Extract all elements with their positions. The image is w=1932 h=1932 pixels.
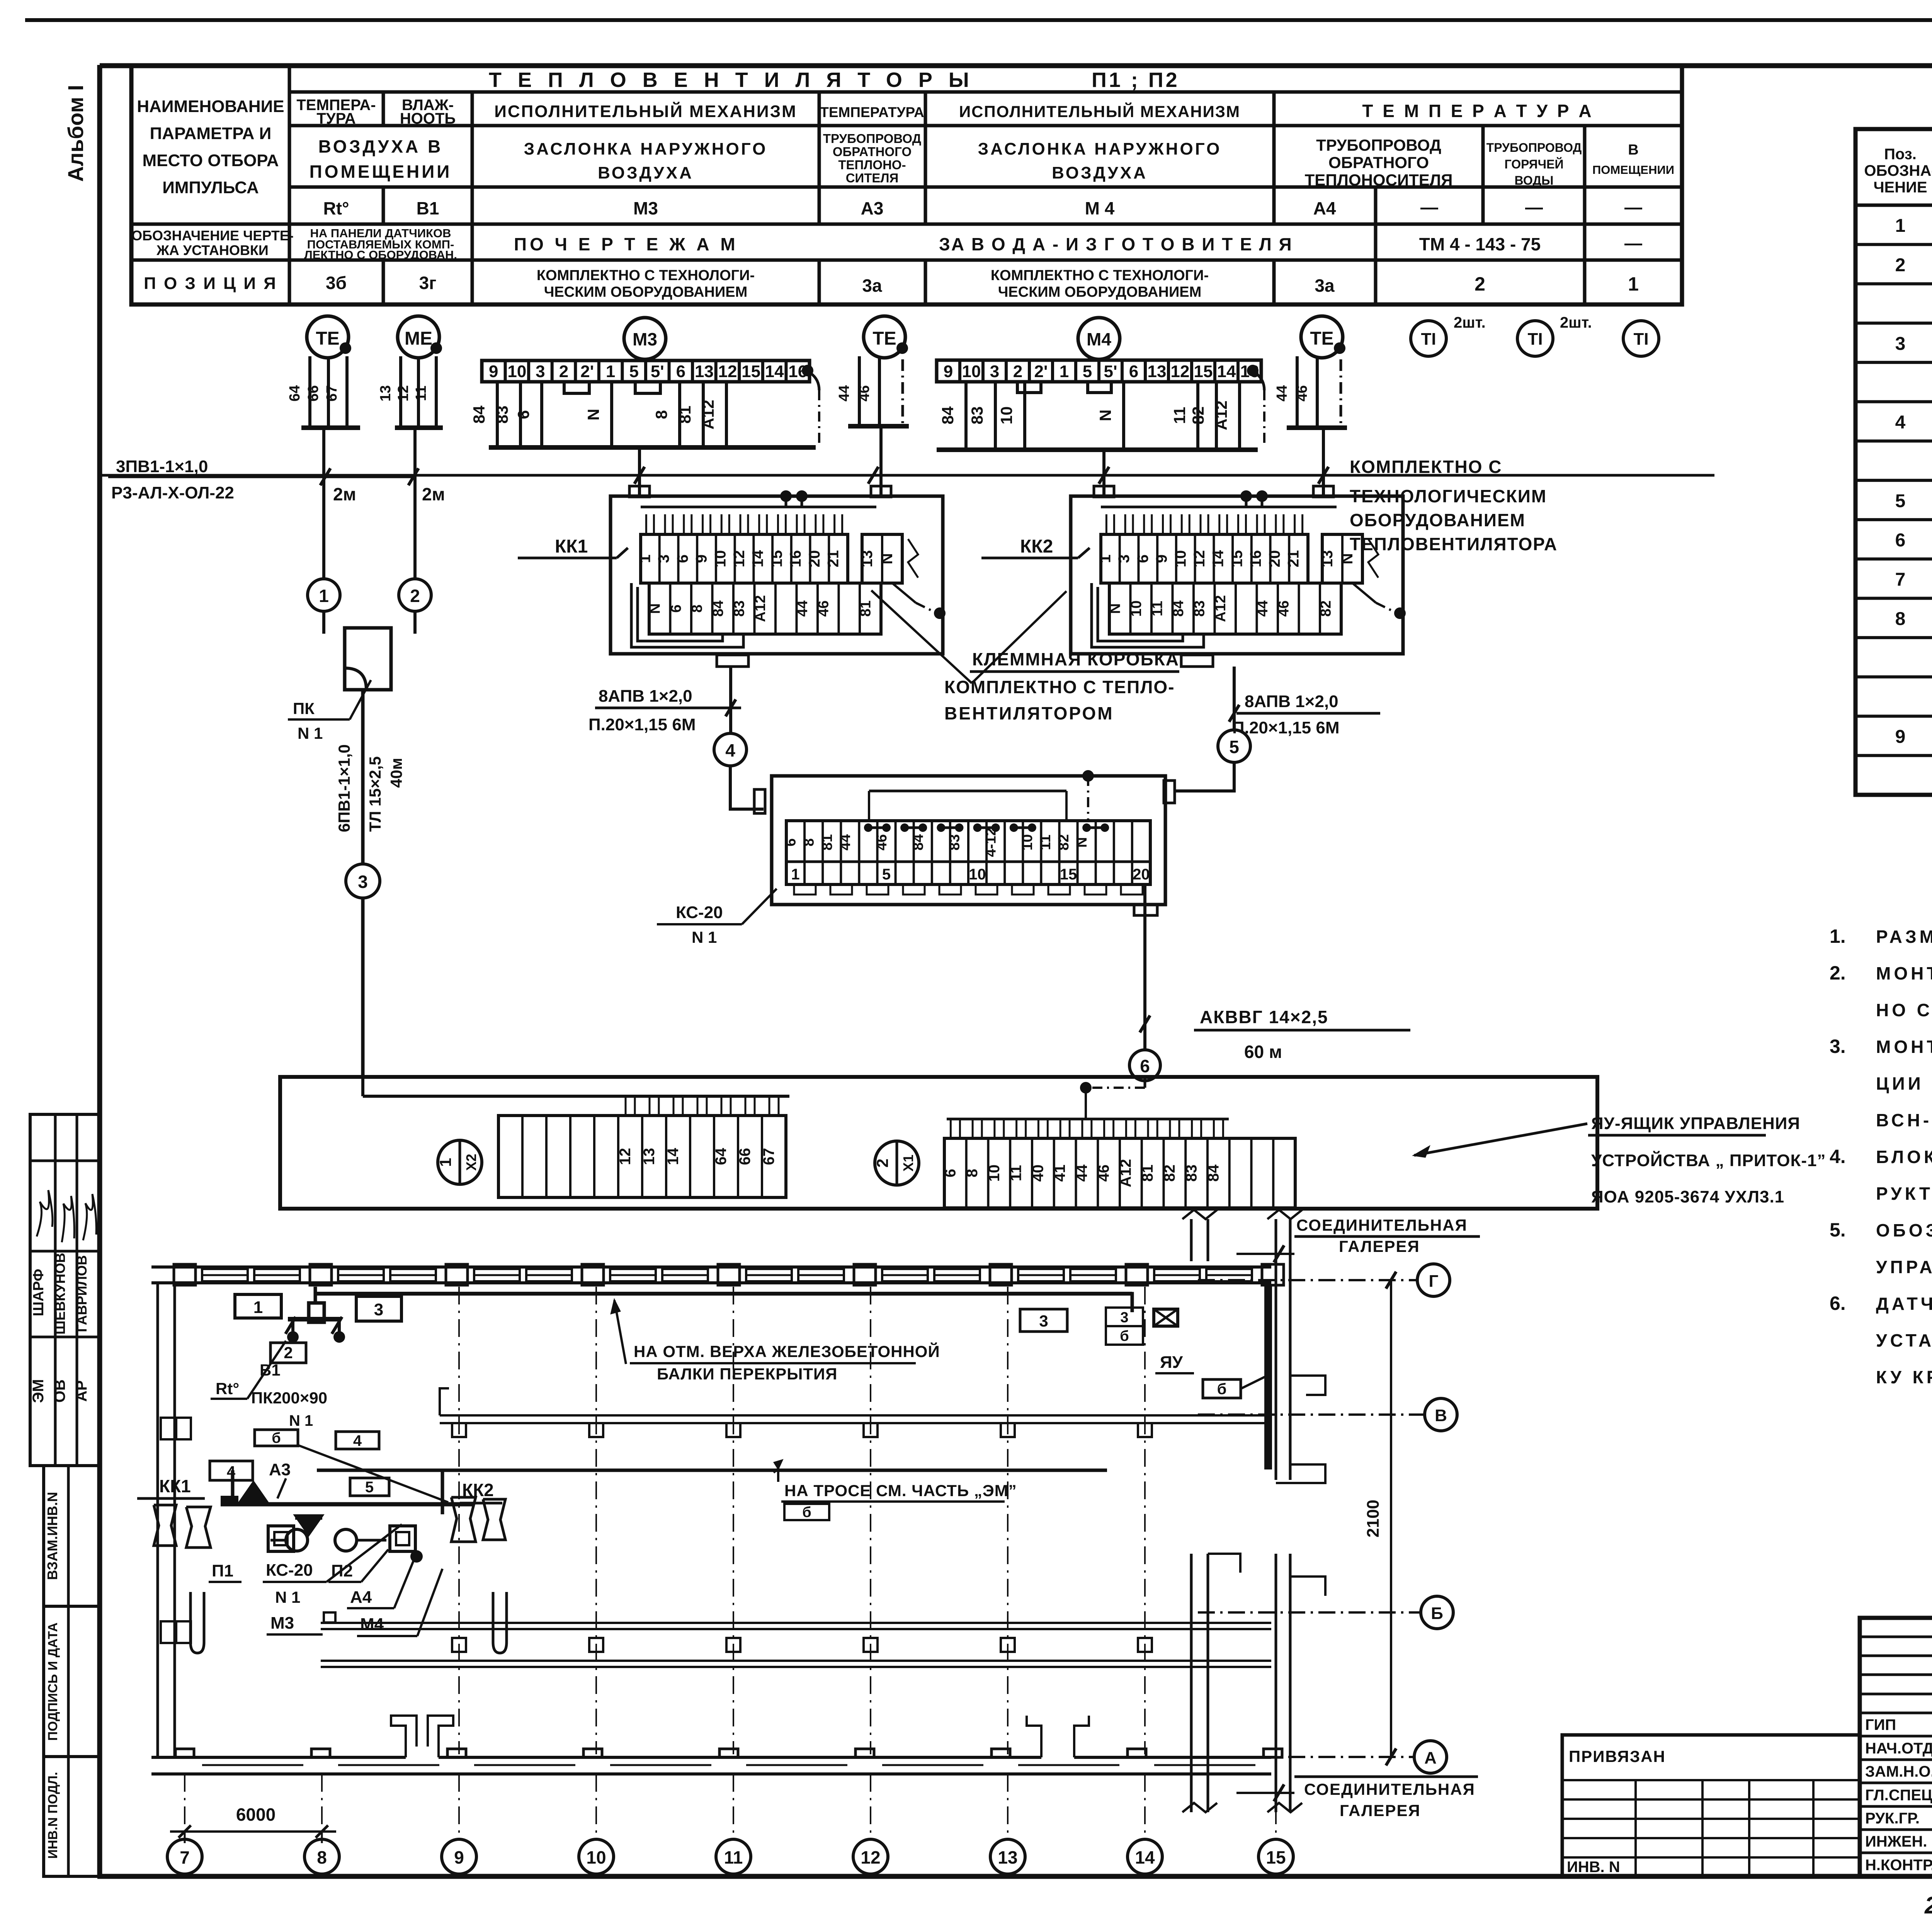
svg-text:44: 44 [837, 834, 854, 850]
svg-text:2': 2' [1034, 362, 1048, 381]
gallery upper walls [1190, 1219, 1193, 1261]
svg-text:5: 5 [882, 866, 891, 883]
svg-text:2: 2 [1475, 273, 1485, 295]
svg-text:ЯОА 9205-3674 УХЛ3.1: ЯОА 9205-3674 УХЛ3.1 [1591, 1187, 1784, 1206]
svg-text:М3: М3 [633, 329, 657, 349]
svg-text:ВСН-296-72 ММСС СССР.: ВСН-296-72 ММСС СССР. [1876, 1110, 1932, 1130]
svg-text:МЕСТО ОТБОРА: МЕСТО ОТБОРА [142, 151, 279, 170]
plan callout stack 3 б right [1106, 1308, 1143, 1326]
terminal strip KC-20 jumper dots [864, 823, 872, 832]
title block outline [1860, 1618, 1932, 1876]
plan down duct right [493, 1592, 507, 1653]
svg-text:б: б [272, 1430, 281, 1446]
svg-text:5: 5 [1895, 491, 1906, 511]
terminal strip M3 end dot [802, 365, 813, 376]
terminal box KK2 lower cells [1109, 583, 1341, 634]
svg-text:—: — [1525, 197, 1543, 217]
svg-text:КС-20: КС-20 [676, 903, 723, 922]
terminal strip M3 bus bar [489, 445, 816, 450]
plan bottom wall pier 7 [175, 1749, 194, 1757]
svg-text:ПК: ПК [293, 699, 315, 718]
small link table [1562, 1735, 1860, 1876]
plan fan motor П1 [286, 1529, 308, 1551]
svg-text:N: N [1096, 410, 1114, 421]
wire TE1 to node 1 [322, 428, 325, 579]
svg-text:Альбом I: Альбом I [63, 85, 88, 182]
plan top wall pier 11 [718, 1264, 740, 1285]
plan bottom wall door jambs [391, 1716, 417, 1757]
svg-text:РУК.ГР.: РУК.ГР. [1865, 1810, 1920, 1827]
svg-text:ОБОЗНАЧЕНИЯ ПРИБОРОВ И СРЕД: ОБОЗНАЧЕНИЯ ПРИБОРОВ И СРЕДСТВ АВТОМАТИЗ… [1876, 1220, 1932, 1240]
plan top wall pier 7 [174, 1264, 196, 1285]
wire TE2 to KK1 [879, 426, 883, 496]
svg-text:ГИП: ГИП [1865, 1716, 1896, 1733]
svg-text:УСТРОЙСТВА „ ПРИТОК-1”: УСТРОЙСТВА „ ПРИТОК-1” [1591, 1150, 1826, 1170]
svg-text:13: 13 [1319, 550, 1336, 568]
svg-text:б: б [1217, 1381, 1227, 1398]
plan bottom wall pier 15 [1264, 1749, 1282, 1757]
leader Клеммная to KK2 [972, 591, 1066, 683]
svg-text:ДАТЧИКИ ТЕМПЕРАТУРЫ И ВЛ: ДАТЧИКИ ТЕМПЕРАТУРЫ И ВЛАЖНОСТИ ВОЗДУХА … [1876, 1294, 1932, 1314]
terminal strip M3 cells [482, 361, 810, 382]
svg-text:ОБРАТНОГО: ОБРАТНОГО [833, 145, 912, 159]
plan КС-20 box symbol right [390, 1526, 415, 1551]
svg-text:83: 83 [968, 406, 986, 425]
svg-text:НООТЬ: НООТЬ [400, 110, 456, 127]
svg-text:10: 10 [1172, 550, 1189, 568]
svg-text:ТЕПЛОНОСИТЕЛЯ: ТЕПЛОНОСИТЕЛЯ [1305, 171, 1453, 189]
svg-text:3а: 3а [862, 276, 882, 296]
svg-text:21: 21 [825, 550, 842, 568]
column bubble 11 [716, 1839, 751, 1874]
svg-text:X2: X2 [463, 1154, 479, 1171]
svg-text:А12: А12 [752, 595, 769, 622]
svg-text:82: 82 [1318, 600, 1334, 617]
svg-text:6: 6 [1134, 554, 1151, 563]
svg-text:В1: В1 [417, 198, 439, 218]
svg-text:6000: 6000 [236, 1804, 276, 1825]
terminal box KK1 inner bus [641, 506, 876, 509]
column bubble 15 [1259, 1839, 1293, 1874]
plan top wall panel [474, 1269, 520, 1281]
svg-text:ГАЛЕРЕЯ: ГАЛЕРЕЯ [1339, 1237, 1420, 1255]
svg-text:15: 15 [768, 550, 785, 568]
svg-text:ПОМЕЩЕНИИ: ПОМЕЩЕНИИ [1592, 163, 1674, 177]
svg-text:2': 2' [580, 362, 594, 381]
svg-text:46: 46 [1276, 600, 1292, 617]
svg-text:8: 8 [317, 1847, 327, 1867]
plan top wall panel [610, 1269, 656, 1281]
sensor МЕ bottom bar [395, 425, 443, 430]
svg-text:X1: X1 [900, 1155, 916, 1172]
plan top wall panel [338, 1269, 384, 1281]
sensor ТЕ bottom bar [848, 424, 909, 429]
plan upper tray columns [452, 1423, 466, 1437]
wire node4 to KC-20 [730, 766, 764, 809]
svg-text:4: 4 [353, 1432, 362, 1449]
svg-text:81: 81 [857, 600, 874, 617]
svg-text:3а: 3а [1315, 276, 1335, 296]
parts table outer box [1855, 129, 1932, 795]
indicator TI1 circle [1411, 321, 1446, 356]
plan bottom wall panel [746, 1764, 847, 1766]
plan bottom wall pier 10 [583, 1749, 602, 1757]
svg-text:82: 82 [1056, 834, 1072, 850]
svg-text:2: 2 [1895, 255, 1906, 276]
wire node1 to PK box [322, 611, 325, 634]
leader to ЯУ box [1414, 1124, 1587, 1155]
svg-text:РАЗМЕЩЕНИЕ ЭЛЕКТРИЧЕСКИХ ПРОВ: РАЗМЕЩЕНИЕ ЭЛЕКТРИЧЕСКИХ ПРОВОДОК УТОЧНИ… [1876, 927, 1932, 947]
svg-text:1: 1 [253, 1298, 263, 1317]
svg-text:84: 84 [1205, 1164, 1222, 1182]
plan fan motor П2 [335, 1529, 357, 1551]
svg-text:6: 6 [514, 410, 532, 419]
svg-text:Н.КОНТР.: Н.КОНТР. [1865, 1857, 1932, 1874]
svg-text:13: 13 [641, 1148, 658, 1165]
svg-text:П.20×1,15 6М: П.20×1,15 6М [588, 715, 696, 734]
pull box ПК N1 [345, 628, 391, 690]
wire KC-20 exit to node 6 [1143, 884, 1146, 1050]
svg-text:ТРУБОПРОВОД: ТРУБОПРОВОД [1486, 141, 1582, 155]
column bubble 13 [990, 1839, 1025, 1874]
svg-text:12: 12 [617, 1148, 634, 1165]
svg-text:2.: 2. [1830, 962, 1846, 984]
svg-text:ГАЛЕРЕЯ: ГАЛЕРЕЯ [1340, 1801, 1421, 1820]
svg-text:40м: 40м [387, 758, 405, 788]
terminal strip M4 jumper brackets [1017, 382, 1041, 393]
svg-text:8АПВ 1×2,0: 8АПВ 1×2,0 [1245, 692, 1338, 711]
svg-text:84: 84 [470, 405, 488, 423]
plan ЯУ wiring at right [1105, 1294, 1132, 1312]
svg-text:А12: А12 [699, 400, 717, 429]
svg-text:ЗАСЛОНКА НАРУЖНОГО: ЗАСЛОНКА НАРУЖНОГО [978, 139, 1222, 158]
plan callout box 4 left [210, 1461, 253, 1480]
svg-text:11: 11 [1008, 1165, 1025, 1181]
plan wiring trunk на тросе [317, 1469, 1107, 1472]
svg-text:ИСПОЛНИТЕЛЬНЫЙ МЕХАНИЗМ: ИСПОЛНИТЕЛЬНЫЙ МЕХАНИЗМ [494, 101, 797, 121]
svg-text:10: 10 [986, 1165, 1003, 1182]
svg-text:82: 82 [1189, 406, 1207, 425]
sheet top edge line [25, 18, 1932, 22]
svg-text:ВЗАМ.ИНВ.N: ВЗАМ.ИНВ.N [44, 1492, 60, 1580]
svg-text:КК1: КК1 [555, 536, 588, 557]
terminal strip KC-20 inner top wires [869, 790, 1066, 793]
terminal strip KC-20 cells [786, 821, 1150, 884]
svg-text:5': 5' [1104, 362, 1117, 381]
svg-text:11: 11 [413, 386, 429, 401]
frame border top [100, 63, 1932, 68]
svg-text:6ПВ1-1×1,0: 6ПВ1-1×1,0 [335, 744, 353, 832]
svg-text:4-12: 4-12 [983, 828, 999, 857]
terminal box KK2 bottom stub and exit wire [1181, 655, 1213, 667]
svg-text:67: 67 [760, 1148, 777, 1165]
terminal box KK1 top stubs [629, 486, 650, 497]
svg-text:2: 2 [410, 586, 420, 606]
svg-text:2м: 2м [333, 484, 356, 504]
column bubble 14 [1128, 1839, 1162, 1874]
svg-text:66: 66 [305, 385, 321, 401]
svg-text:12: 12 [395, 385, 412, 401]
svg-text:46: 46 [1294, 385, 1310, 401]
svg-text:83: 83 [731, 600, 747, 617]
terminal strip KC-20 bottom stubs [794, 884, 816, 895]
svg-text:N: N [647, 603, 663, 614]
svg-text:НАЧ.ОТД.: НАЧ.ОТД. [1865, 1740, 1932, 1757]
sensor ТЕ junction dot [340, 342, 351, 354]
svg-text:N: N [879, 553, 896, 565]
svg-text:8: 8 [689, 604, 705, 612]
plan П1 wall duct [154, 1505, 176, 1546]
svg-text:ЭМ: ЭМ [30, 1379, 47, 1403]
svg-text:2м: 2м [422, 484, 445, 504]
terminal box KK1 outline [611, 496, 943, 654]
plan callout box 3 left [356, 1296, 401, 1321]
column axis 11 [733, 1287, 734, 1754]
column axis 13 [1007, 1287, 1009, 1754]
svg-text:14: 14 [1135, 1847, 1155, 1867]
svg-text:11: 11 [1170, 407, 1189, 424]
svg-text:ВЕНТИЛЯТОРОМ: ВЕНТИЛЯТОРОМ [944, 703, 1114, 723]
svg-text:11: 11 [1037, 835, 1054, 850]
svg-text:14: 14 [1210, 550, 1227, 567]
svg-text:6.: 6. [1830, 1293, 1846, 1314]
svg-text:2: 2 [873, 1158, 891, 1167]
svg-text:КК2: КК2 [1020, 536, 1053, 557]
svg-text:6: 6 [942, 1169, 959, 1177]
svg-text:81: 81 [676, 406, 694, 424]
plan cluster bus wire [221, 1502, 474, 1507]
plan small square mid [324, 1612, 335, 1622]
svg-text:64: 64 [713, 1148, 730, 1165]
terminal box KK2 outline [1071, 496, 1403, 654]
svg-text:3: 3 [1895, 333, 1906, 354]
axis dimension 2100 [1390, 1280, 1392, 1757]
svg-text:12: 12 [1171, 362, 1190, 381]
svg-text:8: 8 [652, 410, 670, 419]
svg-text:10: 10 [1128, 600, 1145, 617]
plan callout box 6 right [1203, 1379, 1241, 1398]
node circle 1 X2 [438, 1140, 482, 1184]
svg-text:2: 2 [284, 1344, 293, 1362]
plan callout box б на тросе [784, 1504, 829, 1520]
svg-text:6: 6 [783, 838, 799, 846]
svg-text:6: 6 [674, 554, 691, 563]
svg-text:М 4: М 4 [1085, 198, 1115, 218]
svg-text:ВОЗДУХА: ВОЗДУХА [598, 163, 694, 182]
svg-text:16: 16 [1247, 550, 1264, 568]
node 3 circle [346, 864, 380, 898]
svg-text:3б: 3б [326, 273, 347, 293]
plan top wall pier 13 [990, 1264, 1012, 1285]
svg-text:БАЛКИ ПЕРЕКРЫТИЯ: БАЛКИ ПЕРЕКРЫТИЯ [657, 1365, 837, 1383]
svg-text:44: 44 [836, 385, 852, 401]
svg-text:9: 9 [489, 362, 498, 381]
svg-text:СОЕДИНИТЕЛЬНАЯ: СОЕДИНИТЕЛЬНАЯ [1304, 1780, 1475, 1798]
svg-text:20: 20 [1266, 550, 1283, 568]
svg-text:15: 15 [1060, 866, 1077, 883]
svg-text:В: В [1628, 142, 1638, 158]
plan dot А4 [410, 1550, 423, 1563]
svg-text:2шт.: 2шт. [1560, 314, 1592, 331]
svg-text:13: 13 [695, 362, 714, 381]
plan lower cable tray line upper [321, 1622, 1271, 1624]
svg-text:6: 6 [676, 362, 685, 381]
svg-text:46: 46 [815, 600, 832, 617]
svg-text:Г: Г [1429, 1272, 1439, 1291]
svg-text:ЛЕКТНО С ОБОРУДОВАН.: ЛЕКТНО С ОБОРУДОВАН. [304, 248, 457, 262]
svg-text:15: 15 [1228, 550, 1245, 568]
svg-text:6: 6 [1129, 362, 1138, 381]
plan top wall panel [1154, 1269, 1200, 1281]
svg-text:ЦИИ ПО МОНТАЖУ ЗАЩИТНОГО: ЦИИ ПО МОНТАЖУ ЗАЩИТНОГО ЗАЗЕМЛЕНИЯ И ЗА… [1876, 1073, 1932, 1094]
svg-text:11: 11 [1149, 601, 1165, 616]
svg-text:9: 9 [454, 1847, 464, 1867]
svg-text:5: 5 [1083, 362, 1092, 381]
svg-text:ПОДПИСЬ И ДАТА: ПОДПИСЬ И ДАТА [46, 1622, 60, 1741]
svg-text:44: 44 [1073, 1164, 1090, 1182]
svg-text:22357-01: 22357-01 [1924, 1892, 1932, 1919]
svg-text:БЛОКИ ЗАЖИМОВ ЯЩИКА УПРАВЛ: БЛОКИ ЗАЖИМОВ ЯЩИКА УПРАВЛЕНИЯ ЯУ ПРИВЕД… [1876, 1147, 1932, 1167]
svg-text:ОБОРУДОВАНИЕМ: ОБОРУДОВАНИЕМ [1350, 510, 1526, 530]
svg-text:НО СН и П 3.05.07-85.: НО СН и П 3.05.07-85. [1876, 1000, 1932, 1020]
svg-text:2: 2 [559, 362, 568, 381]
svg-text:ОБРАТНОГО: ОБРАТНОГО [1328, 153, 1429, 172]
plan callout box 1 [235, 1294, 281, 1318]
ЯУ group X1 gather line [947, 1118, 1229, 1121]
svg-text:N 1: N 1 [275, 1588, 300, 1606]
svg-text:N 1: N 1 [298, 724, 323, 742]
svg-text:44: 44 [794, 600, 811, 617]
terminal box KK2 upper cells [1101, 534, 1308, 583]
svg-text:ТЕМПЕРАТУРА: ТЕМПЕРАТУРА [820, 104, 924, 120]
svg-text:ЯУ-ЯЩИК УПРАВЛЕНИЯ: ЯУ-ЯЩИК УПРАВЛЕНИЯ [1591, 1114, 1800, 1133]
svg-text:В1: В1 [260, 1361, 281, 1379]
plan upper cable tray line [440, 1414, 1271, 1417]
dimension 6000 [170, 1830, 336, 1833]
svg-text:1.: 1. [1830, 925, 1846, 947]
svg-text:—: — [1624, 233, 1642, 253]
svg-text:10: 10 [507, 362, 526, 381]
cable leader line [108, 476, 415, 478]
svg-text:4: 4 [1895, 412, 1906, 433]
svg-text:12: 12 [718, 362, 737, 381]
plan damper A4 flag [295, 1515, 322, 1535]
svg-text:8: 8 [964, 1169, 981, 1177]
svg-text:9: 9 [1153, 554, 1170, 563]
svg-text:12: 12 [861, 1847, 880, 1867]
plan top wall panel [882, 1269, 928, 1281]
svg-text:2: 2 [1013, 362, 1022, 381]
svg-text:81: 81 [1139, 1165, 1156, 1182]
sensor МЕ lead wires [399, 356, 402, 428]
sensor ТЕ junction dot [896, 342, 908, 354]
svg-text:ПОМЕЩЕНИИ: ПОМЕЩЕНИИ [310, 162, 452, 182]
svg-text:ВОЗДУХА: ВОЗДУХА [1052, 163, 1148, 182]
terminal box KK1 upper cells [641, 534, 848, 583]
svg-text:5': 5' [651, 362, 664, 381]
svg-text:6: 6 [1140, 1056, 1150, 1076]
svg-text:81: 81 [819, 834, 835, 850]
svg-text:А4: А4 [350, 1588, 372, 1607]
wire ME to node 2 [413, 428, 417, 579]
svg-text:83: 83 [946, 834, 963, 850]
leader Клеммная to KK1 [871, 590, 972, 683]
svg-text:12: 12 [1191, 550, 1208, 568]
ЯУ top dot and dash-dot [1080, 1082, 1092, 1094]
svg-text:ЗА В О Д А - И З Г О Т О В И: ЗА В О Д А - И З Г О Т О В И Т Е Л Я [939, 234, 1293, 254]
svg-text:УСТАНОВИТЬ НА СТЕНЕ НА О: УСТАНОВИТЬ НА СТЕНЕ НА ОТМ . 1.500 , СОЕ… [1876, 1330, 1932, 1350]
svg-text:ЖА УСТАНОВКИ: ЖА УСТАНОВКИ [156, 242, 269, 258]
terminal strip M4 bus bar [937, 447, 1258, 452]
svg-text:1: 1 [319, 586, 329, 606]
svg-text:ЧЕНИЕ: ЧЕНИЕ [1873, 179, 1927, 196]
svg-text:46: 46 [1095, 1165, 1112, 1182]
svg-text:15: 15 [1266, 1847, 1286, 1867]
sensor ТЕ lead wires [1296, 356, 1299, 428]
terminal box KK2 dash-dot to dot [1352, 583, 1376, 603]
column axis 12 [870, 1287, 871, 1754]
supply boundary line [100, 474, 1714, 477]
plan wiring run below top wall [315, 1292, 1132, 1296]
ЯУ terminal group X1 cells [944, 1138, 1295, 1208]
svg-text:20: 20 [1133, 866, 1150, 883]
svg-text:ПК200×90: ПК200×90 [251, 1389, 327, 1407]
plan top wall pier 9 [446, 1264, 468, 1285]
svg-text:ТI: ТI [1527, 330, 1543, 349]
terminal box KK1 nested bottom wires [638, 587, 723, 641]
gallery upper caps [1290, 1376, 1325, 1395]
frame border bottom [97, 1874, 1932, 1879]
svg-text:9: 9 [693, 554, 710, 563]
svg-text:УПРАВЛЕНИЯ ЯУ ВЫПОЛНЕНЫ ПО: УПРАВЛЕНИЯ ЯУ ВЫПОЛНЕНЫ ПО СХЕМЕ ИЖТП 65… [1876, 1257, 1932, 1277]
svg-text:Поз.: Поз. [1884, 146, 1917, 163]
svg-text:6: 6 [668, 604, 684, 612]
svg-text:20: 20 [806, 550, 823, 568]
svg-text:N: N [1107, 603, 1123, 614]
plan bottom wall panel [882, 1764, 983, 1766]
svg-text:13: 13 [998, 1847, 1017, 1867]
plan top wall pier 14 [1126, 1264, 1148, 1285]
plan callout box 4 right [336, 1432, 379, 1449]
wire KK1 to node 4 [729, 667, 732, 733]
svg-text:ОБОЗНАЧЕНИЕ ЧЕРТЕ-: ОБОЗНАЧЕНИЕ ЧЕРТЕ- [131, 228, 294, 243]
plan bottom wall panel [202, 1764, 303, 1766]
column bubble 7 [167, 1839, 202, 1874]
plan wiring drops at sensors [288, 1317, 340, 1321]
svg-text:83: 83 [1191, 600, 1207, 617]
svg-text:7: 7 [1895, 570, 1906, 590]
wire TE3 to KK2 [1322, 428, 1325, 496]
sensor МЕ junction dot [430, 342, 442, 354]
svg-text:РУКТОРСКОЙ ДОКУМЕНТАЦИИ.: РУКТОРСКОЙ ДОКУМЕНТАЦИИ. [1876, 1184, 1932, 1204]
node 2 circle [399, 579, 431, 611]
svg-text:3.: 3. [1830, 1036, 1846, 1057]
svg-text:АКВВГ 14×2,5: АКВВГ 14×2,5 [1200, 1007, 1328, 1027]
sensor ТЕ circle [307, 316, 349, 358]
svg-text:М4: М4 [1087, 329, 1111, 349]
svg-text:СИТЕЛЯ: СИТЕЛЯ [846, 171, 899, 185]
svg-text:В: В [1435, 1406, 1447, 1425]
plan left wall [156, 1283, 159, 1757]
svg-text:М4: М4 [360, 1615, 384, 1634]
svg-text:П1: П1 [212, 1561, 233, 1580]
svg-text:3: 3 [374, 1300, 383, 1319]
stamp signatures [37, 1190, 53, 1236]
column axis 7 [184, 1774, 185, 1839]
svg-text:5: 5 [365, 1479, 374, 1496]
svg-text:ЗАМ.Н.О.: ЗАМ.Н.О. [1865, 1763, 1932, 1780]
svg-text:Rt°: Rt° [323, 198, 349, 218]
